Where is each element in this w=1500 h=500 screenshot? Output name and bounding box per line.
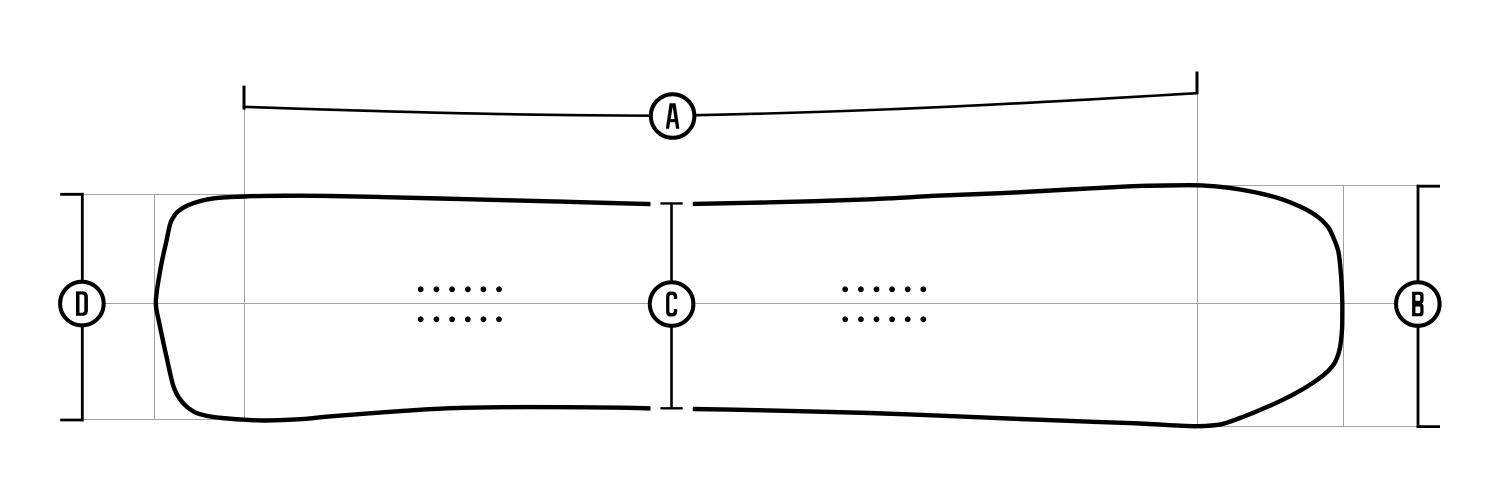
letter B (1412, 292, 1423, 317)
bracket B (right) (1417, 185, 1440, 428)
circle C (650, 282, 694, 326)
dimension A left tick (243, 86, 246, 110)
insert dots right group (842, 286, 926, 322)
letter D (76, 291, 88, 315)
bracket D (left) (60, 193, 83, 422)
guide line: tail tip vertical (1343, 186, 1345, 427)
dimension C vertical line (670, 203, 673, 408)
board outline right half (693, 185, 1343, 426)
guide line: nose width bottom (84, 419, 244, 421)
dimension A curved line (244, 93, 1197, 116)
circle B (1396, 282, 1440, 326)
circle D (60, 282, 104, 326)
guide line: center horizontal (82, 303, 1418, 305)
dimension C bottom cap (660, 407, 682, 409)
guide line: contact left vertical (244, 107, 246, 420)
dimension A right tick (1196, 72, 1199, 95)
guide line: nose width top (84, 194, 244, 196)
insert dots left group (418, 286, 502, 322)
guide line: tail width top (1197, 185, 1418, 187)
letter C (666, 292, 677, 317)
guide line: tail width bottom (1197, 426, 1418, 428)
guide line: contact right vertical (1197, 94, 1199, 427)
letter A (666, 103, 680, 129)
guide line: nose tip vertical (154, 195, 156, 420)
dimension C top cap (660, 202, 682, 204)
circle A (651, 94, 695, 138)
board outline left half (156, 196, 651, 421)
